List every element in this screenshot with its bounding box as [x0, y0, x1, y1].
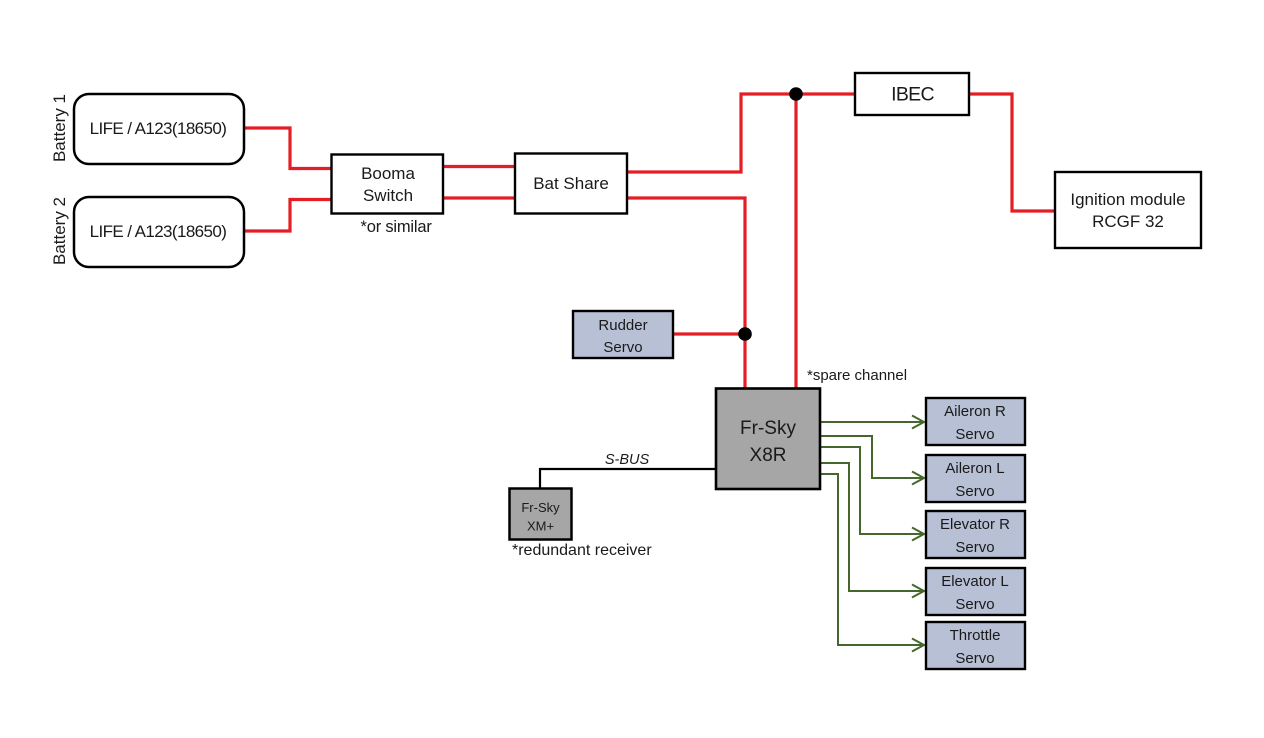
wire X8R to aileron R servo — [820, 421, 923, 423]
svg-text:Fr-Sky: Fr-Sky — [740, 418, 796, 439]
svg-text:X8R: X8R — [750, 445, 787, 466]
servo box aileron R — [926, 398, 1025, 445]
svg-text:Ignition module: Ignition module — [1070, 190, 1185, 209]
wire S-BUS — [540, 469, 716, 490]
svg-text:Switch: Switch — [363, 186, 413, 205]
svg-text:Servo: Servo — [955, 596, 994, 613]
switch box Booma Switch — [332, 155, 444, 214]
svg-text:IBEC: IBEC — [891, 84, 934, 106]
servo box throttle — [926, 622, 1025, 669]
svg-text:Servo: Servo — [955, 539, 994, 556]
svg-text:LIFE / A123(18650): LIFE / A123(18650) — [90, 222, 227, 241]
svg-text:Bat Share: Bat Share — [533, 174, 609, 193]
IBEC box — [855, 73, 969, 115]
svg-text:XM+: XM+ — [527, 519, 554, 534]
svg-text:*or similar: *or similar — [361, 218, 433, 236]
wire X8R to throttle servo — [820, 474, 923, 645]
svg-text:Rudder: Rudder — [598, 317, 647, 334]
servo box aileron L — [926, 455, 1025, 502]
junction node at IBEC line — [789, 87, 803, 101]
wire batshare to IBEC — [627, 94, 855, 172]
svg-text:Battery 1: Battery 1 — [50, 94, 69, 162]
receiver box Fr-Sky XM+ — [510, 489, 572, 540]
svg-text:Battery 2: Battery 2 — [50, 197, 69, 265]
wire battery1 to switch — [244, 128, 332, 169]
wire battery2 to switch — [244, 200, 332, 232]
wire rudder servo to junction — [673, 332, 745, 335]
svg-text:Aileron R: Aileron R — [944, 403, 1006, 420]
wire switch to batshare upper — [443, 165, 515, 168]
receiver box Fr-Sky X8R — [716, 389, 820, 490]
svg-text:*redundant receiver: *redundant receiver — [512, 542, 652, 559]
ignition module box RCGF 32 — [1055, 172, 1201, 248]
wire batshare lower to X8R — [627, 198, 745, 388]
svg-text:Servo: Servo — [955, 483, 994, 500]
svg-text:S-BUS: S-BUS — [605, 452, 650, 468]
wire IBEC to ignition module — [969, 94, 1055, 211]
svg-text:Booma: Booma — [361, 164, 415, 183]
svg-text:Aileron L: Aileron L — [945, 460, 1004, 477]
wire X8R to elevator L servo — [820, 463, 923, 591]
svg-text:Throttle: Throttle — [950, 627, 1001, 644]
svg-text:*spare channel: *spare channel — [807, 367, 907, 384]
servo box elevator R — [926, 511, 1025, 558]
svg-text:LIFE / A123(18650): LIFE / A123(18650) — [90, 119, 227, 138]
wire spare channel down to X8R — [794, 94, 797, 388]
junction node at rudder line — [738, 327, 752, 341]
wire X8R to elevator R servo — [820, 447, 923, 534]
svg-text:RCGF 32: RCGF 32 — [1092, 212, 1164, 231]
svg-text:Servo: Servo — [955, 426, 994, 443]
battery 1 box LIFE / A123(18650) — [74, 94, 244, 164]
svg-text:Elevator L: Elevator L — [941, 573, 1009, 590]
batshare box Bat Share — [515, 154, 627, 214]
servo box elevator L — [926, 568, 1025, 615]
wire switch to batshare lower — [443, 196, 515, 199]
battery 2 box LIFE / A123(18650) — [74, 197, 244, 267]
svg-text:Servo: Servo — [603, 339, 642, 356]
svg-text:Servo: Servo — [955, 650, 994, 667]
rudder servo box — [573, 311, 673, 358]
wire X8R to aileron L servo — [820, 436, 923, 478]
svg-text:Fr-Sky: Fr-Sky — [521, 500, 560, 515]
svg-text:Elevator R: Elevator R — [940, 516, 1010, 533]
